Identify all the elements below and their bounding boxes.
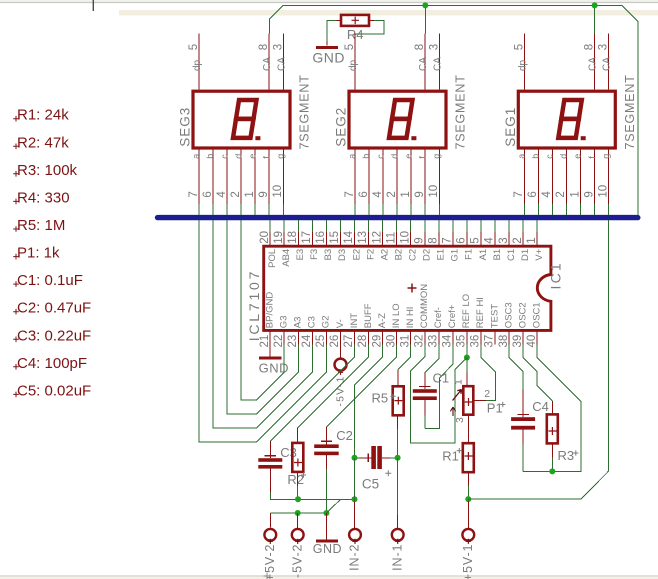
- svg-text:TEST: TEST: [489, 304, 500, 328]
- wire bus to pin 4: [494, 220, 496, 232]
- 7-segment display SEG2 body: [349, 91, 446, 148]
- IC1 pin 3 (C1) lead: [508, 232, 510, 246]
- wire rail diagonal to IN-2 net: [326, 499, 340, 513]
- SEG3 digit 8: [233, 100, 257, 138]
- svg-text:17: 17: [301, 231, 313, 244]
- connector pad IN-2: [349, 529, 361, 541]
- svg-text:1: 1: [452, 379, 464, 385]
- svg-text:7: 7: [513, 191, 525, 197]
- svg-text:9: 9: [258, 191, 270, 197]
- svg-text:AB4: AB4: [281, 249, 292, 267]
- svg-text:4: 4: [541, 191, 553, 198]
- wire SEG2.d to bus: [396, 204, 398, 215]
- svg-text:7SEGMENT: 7SEGMENT: [298, 74, 312, 149]
- SEG2 digit 8: [389, 100, 413, 138]
- IC1 pin 25 (G2) lead: [325, 330, 327, 344]
- svg-text:dp: dp: [517, 59, 528, 71]
- svg-text:2: 2: [555, 191, 567, 197]
- IC1 pin 38 (OSC3) lead: [508, 330, 510, 344]
- svg-text:e: e: [573, 154, 583, 159]
- svg-text:g: g: [601, 154, 611, 159]
- svg-text:b: b: [205, 154, 215, 159]
- SEG1 pin f lead (bottom): [594, 150, 596, 204]
- wire bus to pin 20: [269, 220, 271, 232]
- svg-text:3: 3: [498, 237, 510, 243]
- svg-text:OSC2: OSC2: [517, 302, 528, 328]
- IC1 pin 11 (B2) lead: [396, 232, 398, 246]
- svg-text:C1: C1: [433, 371, 450, 386]
- svg-text:a: a: [517, 154, 527, 159]
- SEG1 pin CA lead (top): [608, 34, 610, 90]
- svg-text:4: 4: [372, 191, 384, 198]
- wire bus to pin 8: [438, 220, 440, 232]
- svg-text:d: d: [233, 154, 243, 159]
- P1 wiper arrow: [453, 390, 462, 401]
- IC1 pin 17 (F3) lead: [311, 232, 313, 246]
- wire SEG2.b to bus: [368, 204, 370, 215]
- wire SEG2.c to bus: [382, 204, 384, 215]
- IC1 pin 14 (E2) lead: [354, 232, 356, 246]
- wire R4 left to GND: [337, 19, 342, 21]
- svg-text:E1: E1: [436, 249, 447, 261]
- wire bus to pin 16: [325, 220, 327, 232]
- wire rail to SEG2 CA: [424, 5, 426, 33]
- svg-text:F3: F3: [309, 249, 320, 260]
- svg-text:27: 27: [343, 335, 355, 348]
- wire pin22 via diagonal to bus column x=241.15: [241, 220, 284, 400]
- SEG3 pin CA lead (top): [268, 34, 270, 90]
- svg-text:C5: 0.02uF: C5: 0.02uF: [17, 382, 91, 399]
- svg-text:1: 1: [569, 191, 581, 197]
- svg-text:40: 40: [526, 335, 538, 348]
- svg-text:5: 5: [513, 44, 525, 50]
- wire SEG3.f to bus: [268, 204, 270, 215]
- svg-text:22: 22: [273, 335, 285, 348]
- wire -5V-2 drop: [297, 513, 299, 529]
- SEG2 pin CA lead (top): [424, 34, 426, 90]
- svg-text:32: 32: [413, 335, 425, 348]
- SEG3 pin b lead (bottom): [212, 150, 214, 204]
- svg-text:R3: 100k: R3: 100k: [17, 162, 78, 179]
- svg-text:15: 15: [329, 231, 341, 244]
- wire SEG1.g to bus: [608, 204, 610, 215]
- svg-text:20: 20: [259, 231, 271, 244]
- SEG1 pin CA lead (top): [594, 34, 596, 90]
- svg-text:CA: CA: [418, 57, 429, 71]
- IC1 pin 15 (D3) lead: [339, 232, 341, 246]
- wire SEG2.g to bus: [438, 204, 440, 215]
- wire C5 left lead: [355, 457, 359, 459]
- wire bus to pin 12: [382, 220, 384, 232]
- svg-text:7: 7: [442, 237, 454, 243]
- wire pin35 to node: [466, 345, 468, 358]
- resistor R1: [463, 443, 474, 472]
- capacitor C2 polarity tick: [321, 440, 332, 442]
- SEG1 pin dp lead (top): [523, 34, 525, 90]
- SEG2 pin a lead (bottom): [354, 150, 356, 204]
- wire IN-2 node down: [354, 499, 356, 501]
- svg-text:C3: C3: [280, 445, 297, 460]
- SEG3 pin a lead (bottom): [198, 150, 200, 204]
- IC1 pin 8 (E1) lead: [438, 232, 440, 246]
- wire SEG1.d to bus: [566, 204, 568, 215]
- wire bus to pin 19: [283, 220, 285, 232]
- svg-text:d: d: [389, 154, 399, 159]
- wire bus to pin 10: [410, 220, 412, 232]
- node REF LO junction: [464, 355, 470, 361]
- svg-text:Cref+: Cref+: [447, 304, 458, 328]
- IC1 origin cross: [408, 284, 417, 293]
- IC1 pin 18 (E3) lead: [297, 232, 299, 246]
- svg-text:dp: dp: [192, 59, 203, 71]
- SEG2 pin d lead (bottom): [396, 150, 398, 204]
- resistor R3: [547, 414, 558, 443]
- svg-text:30: 30: [385, 335, 397, 348]
- wire bus to pin 2: [522, 220, 524, 232]
- wire SEG3.c to bus: [226, 204, 228, 215]
- svg-text:D3: D3: [337, 249, 348, 261]
- capacitor C5 polarity tick: [367, 454, 369, 463]
- wire pin27 to C3: [270, 345, 354, 442]
- wire rail to SEG1 CA: [594, 5, 596, 33]
- svg-text:1: 1: [400, 191, 412, 197]
- svg-text:7SEGMENT: 7SEGMENT: [454, 74, 468, 149]
- wire node to COMMON vertical: [455, 358, 467, 370]
- svg-text:ICL7107: ICL7107: [246, 269, 262, 342]
- wire pin25 via diagonal to bus column x=199.0: [199, 220, 326, 442]
- connector pad IN-1: [392, 529, 404, 541]
- svg-text:IC1: IC1: [547, 261, 563, 289]
- svg-text:D1: D1: [520, 249, 531, 261]
- svg-text:R5: R5: [372, 391, 389, 406]
- svg-text:IN HI: IN HI: [405, 307, 416, 329]
- svg-text:10: 10: [428, 185, 440, 198]
- wire +5V-1 drop: [467, 499, 469, 501]
- IC1 pin 31 (IN HI) lead: [410, 330, 412, 344]
- wire pin24 via diagonal to bus column x=213.05: [213, 220, 312, 428]
- svg-text:8: 8: [428, 237, 440, 243]
- IC1 pin 33 (Cref-) lead: [438, 330, 440, 344]
- IC1 pin 16 (B3) lead: [325, 232, 327, 246]
- node GND-2 junction: [323, 510, 329, 516]
- capacitor C2: [314, 444, 339, 448]
- svg-text:5: 5: [344, 44, 356, 50]
- svg-text:A-Z: A-Z: [377, 313, 388, 329]
- svg-text:e: e: [403, 154, 413, 159]
- svg-text:g: g: [276, 154, 286, 159]
- SEG2 decimal point: [411, 136, 416, 140]
- svg-text:Cref-: Cref-: [433, 307, 444, 328]
- svg-text:4: 4: [484, 237, 496, 244]
- svg-text:11: 11: [385, 232, 397, 244]
- capacitor C5: [371, 446, 376, 469]
- SEG1 pin a lead (bottom): [523, 150, 525, 204]
- svg-text:V+: V+: [534, 248, 545, 260]
- wire C5 right lead: [382, 457, 390, 459]
- SEG2 pin g lead (bottom): [438, 150, 440, 204]
- IC1 pin 19 (AB4) lead: [283, 232, 285, 246]
- svg-text:13: 13: [357, 231, 369, 244]
- SEG3 pin e lead (bottom): [254, 150, 256, 204]
- 7-segment display SEG1 body: [518, 91, 615, 148]
- IC1 pin 29 (A-Z) lead: [382, 330, 384, 344]
- IC1 pin 37 (TEST) lead: [494, 330, 496, 344]
- svg-text:3: 3: [454, 417, 466, 423]
- svg-text:C1: C1: [506, 249, 517, 261]
- cream toolbar band top right: [119, 10, 658, 16]
- svg-text:E2: E2: [351, 249, 362, 261]
- svg-text:SEG2: SEG2: [334, 107, 349, 147]
- wire +5V top rail: [283, 5, 638, 214]
- svg-text:9: 9: [414, 191, 426, 197]
- svg-text:D2: D2: [422, 249, 433, 261]
- connector pad -5V-2: [292, 529, 304, 541]
- SEG2 pin f lead (bottom): [424, 150, 426, 204]
- svg-text:C3: 0.22uF: C3: 0.22uF: [17, 327, 91, 344]
- IC1 pin 40 (OSC1) lead: [536, 330, 538, 344]
- wire SEG3.b to bus: [212, 204, 214, 215]
- svg-text:INT: INT: [349, 313, 360, 329]
- wire pin34 to C1 bottom: [425, 345, 453, 429]
- svg-text:8: 8: [414, 44, 426, 50]
- IC1 pin 22 (G3) lead: [283, 330, 285, 344]
- svg-text:19: 19: [273, 231, 285, 244]
- wire SEG3.a to bus: [198, 204, 200, 215]
- svg-text:B2: B2: [393, 249, 404, 261]
- svg-text:5: 5: [470, 237, 482, 243]
- capacitor C4: [511, 417, 535, 421]
- IC1 pin 10 (C2) lead: [410, 232, 412, 246]
- wire P1 pin3 to R1: [467, 415, 469, 444]
- svg-text:35: 35: [456, 335, 468, 348]
- wire SEG3.g to bus: [282, 204, 284, 215]
- svg-text:6: 6: [456, 237, 468, 243]
- svg-text:R2: R2: [287, 472, 304, 487]
- wire SEG1.c to bus: [551, 204, 553, 215]
- svg-text:b: b: [531, 154, 541, 159]
- IC1 pin 32 (COMMON) lead: [424, 330, 426, 344]
- capacitor C3 polarity tick: [265, 455, 276, 457]
- svg-text:23: 23: [287, 335, 299, 348]
- svg-text:4: 4: [216, 191, 228, 198]
- resistor R4: [341, 15, 369, 26]
- SEG2 pin e lead (bottom): [410, 150, 412, 204]
- svg-text:3: 3: [598, 44, 610, 50]
- wire pin21 to ground: [269, 345, 271, 358]
- IC1 pin 13 (F2) lead: [368, 232, 370, 246]
- wire pin23 via diagonal to bus column x=227.1: [227, 220, 298, 414]
- svg-text:2: 2: [386, 191, 398, 197]
- svg-text:C2: C2: [408, 249, 419, 261]
- wire pin28 to R2: [298, 345, 369, 428]
- svg-text:24: 24: [301, 334, 313, 347]
- svg-text:G3: G3: [279, 316, 290, 329]
- capacitor C4 polarity tick: [518, 414, 529, 416]
- node +5V-1 junction: [465, 496, 471, 502]
- svg-text:7SEGMENT: 7SEGMENT: [623, 74, 637, 149]
- svg-text:SEG3: SEG3: [178, 107, 193, 147]
- svg-text:CA: CA: [432, 57, 443, 71]
- svg-text:IN-1: IN-1: [390, 544, 404, 571]
- capacitor C3: [258, 458, 282, 462]
- wire SEG3.e to bus: [254, 204, 256, 215]
- wire R4 right to SEG2 dp: [369, 19, 374, 21]
- wire pin33 to C1: [425, 345, 439, 373]
- svg-text:R1: R1: [442, 449, 459, 464]
- svg-text:a: a: [347, 154, 357, 159]
- svg-text:-5V-2: -5V-2: [290, 544, 304, 578]
- svg-text:dp: dp: [348, 59, 359, 71]
- svg-text:F1: F1: [464, 249, 475, 260]
- svg-text:REF LO: REF LO: [461, 294, 472, 328]
- wire R3 bottom: [551, 443, 553, 457]
- wire bus to pin 3: [508, 220, 510, 232]
- wire bus to pin 14: [354, 220, 356, 232]
- svg-text:R2: 47k: R2: 47k: [17, 134, 69, 151]
- wire SEG1.e to bus: [580, 204, 582, 215]
- svg-text:39: 39: [512, 335, 524, 348]
- wire bus to pin 6: [466, 220, 468, 232]
- svg-text:R4: 330: R4: 330: [17, 189, 70, 206]
- SEG2 pin c lead (bottom): [382, 150, 384, 204]
- SEG1 pin g lead (bottom): [608, 150, 610, 204]
- svg-text:6: 6: [202, 191, 214, 197]
- wire pin29 to C5 node: [355, 345, 383, 458]
- IC1 pin 20 (POL) lead: [269, 232, 271, 246]
- svg-text:37: 37: [484, 335, 496, 348]
- wire C2 bottom to rail: [325, 455, 327, 469]
- svg-text:10: 10: [272, 185, 284, 198]
- IC1 pin 28 (BUFF) lead: [368, 330, 370, 344]
- resistor R2: [292, 443, 303, 472]
- node junction rail-SEG1CA: [592, 2, 598, 8]
- svg-text:36: 36: [470, 335, 482, 348]
- svg-text:3: 3: [272, 44, 284, 50]
- wire pin31 to R5: [398, 345, 411, 370]
- svg-text:B3: B3: [323, 249, 334, 261]
- svg-text:REF HI: REF HI: [475, 297, 486, 328]
- connector pad +5V-2: [264, 529, 276, 541]
- svg-text:E3: E3: [295, 249, 306, 261]
- IC1 pin 30 (IN LO) lead: [396, 330, 398, 344]
- svg-text:2: 2: [484, 388, 490, 400]
- IC1 pin 36 (REF HI) lead: [480, 330, 482, 344]
- ground GND (pin21): [259, 356, 282, 359]
- svg-text:C2: C2: [336, 428, 353, 443]
- wire pin26 to -5V-1: [339, 345, 341, 358]
- wire R1 bottom to node: [467, 472, 469, 486]
- resistor R5: [393, 386, 404, 415]
- wire pin30 to C2: [326, 345, 396, 428]
- IC1 pin 39 (OSC2) lead: [522, 330, 524, 344]
- SEG3 pin dp lead (top): [198, 34, 200, 90]
- IC1 pin 26 (V-) lead: [339, 330, 341, 344]
- svg-text:+5V-1: +5V-1: [461, 544, 475, 579]
- IC1 pin 34 (Cref+) lead: [452, 330, 454, 344]
- svg-text:34: 34: [442, 334, 454, 347]
- svg-text:GND: GND: [312, 49, 345, 65]
- wire +5V bus exit to node: [468, 220, 608, 499]
- IC1 pin 9 (D2) lead: [424, 232, 426, 246]
- svg-text:10: 10: [597, 185, 609, 198]
- wire R5 bottom to C5 node: [397, 415, 399, 429]
- svg-text:6: 6: [358, 191, 370, 197]
- IC1 pin 21 (BP/GND) lead: [269, 330, 271, 344]
- svg-text:COMMON: COMMON: [419, 284, 430, 328]
- SEG3 pin d lead (bottom): [240, 150, 242, 204]
- svg-text:C4: 100pF: C4: 100pF: [17, 355, 87, 372]
- svg-text:A2: A2: [379, 249, 390, 261]
- connector pad +5V-1: [462, 529, 474, 541]
- wire SEG1.b to bus: [537, 204, 539, 215]
- svg-text:GND: GND: [313, 542, 342, 556]
- wire R2 bottom: [297, 472, 299, 486]
- svg-text:29: 29: [371, 335, 383, 348]
- svg-text:9: 9: [583, 191, 595, 197]
- svg-text:1: 1: [244, 191, 256, 197]
- IC1 pin 4 (B1) lead: [494, 232, 496, 246]
- wire C4 bottom: [522, 444, 524, 472]
- svg-text:c: c: [545, 154, 555, 159]
- wire bus to pin 15: [339, 220, 341, 232]
- wire pin36 to P1 wiper: [481, 345, 495, 401]
- node C5 left junction: [352, 455, 358, 461]
- svg-text:38: 38: [498, 335, 510, 348]
- IC1 pin 2 (D1) lead: [522, 232, 524, 246]
- svg-text:A3: A3: [293, 317, 304, 329]
- bus (blue): [158, 215, 638, 220]
- wire C5node to IN-2 node: [354, 458, 356, 500]
- SEG3 pin g lead (bottom): [282, 150, 284, 204]
- SEG1 pin e lead (bottom): [580, 150, 582, 204]
- node -5V-2 junction: [295, 510, 301, 516]
- svg-text:9: 9: [413, 237, 425, 243]
- svg-text:18: 18: [287, 231, 299, 244]
- svg-text:1: 1: [526, 237, 538, 243]
- svg-text:7: 7: [188, 191, 200, 197]
- wire GND stub: [325, 513, 327, 541]
- wire pin39 to R3: [523, 345, 552, 401]
- IC1 pin 7 (G1) lead: [452, 232, 454, 246]
- wire supply rail y=513: [269, 513, 271, 528]
- SEG1 digit 8: [558, 100, 582, 138]
- svg-text:R5: 1M: R5: 1M: [17, 217, 65, 234]
- svg-text:33: 33: [428, 335, 440, 348]
- IC1 pin 24 (C3) lead: [311, 330, 313, 344]
- svg-text:21: 21: [259, 335, 271, 348]
- SEG1 pin d lead (bottom): [566, 150, 568, 204]
- svg-text:c: c: [375, 154, 385, 159]
- svg-text:g: g: [432, 154, 442, 159]
- svg-text:OSC1: OSC1: [531, 302, 542, 328]
- wire bus to pin 11: [396, 220, 398, 232]
- wire bus to pin 17: [311, 220, 313, 232]
- SEG3 pin CA lead (top): [282, 34, 284, 90]
- svg-text:5: 5: [188, 44, 200, 50]
- 7-segment display SEG3 body: [193, 91, 290, 148]
- svg-text:OSC3: OSC3: [503, 302, 514, 328]
- svg-text:c: c: [219, 154, 229, 159]
- svg-text:C4: C4: [532, 399, 549, 414]
- svg-text:e: e: [247, 154, 257, 159]
- IC1 pin 6 (F1) lead: [466, 232, 468, 246]
- IC1 pin 1 (V+) lead: [536, 232, 538, 246]
- svg-text:d: d: [559, 154, 569, 159]
- IC1 pin 5 (A1) lead: [480, 232, 482, 246]
- wire SEG2.a to bus: [354, 204, 356, 215]
- SEG1 pin c lead (bottom): [551, 150, 553, 204]
- node R2 bottom junction: [295, 496, 301, 502]
